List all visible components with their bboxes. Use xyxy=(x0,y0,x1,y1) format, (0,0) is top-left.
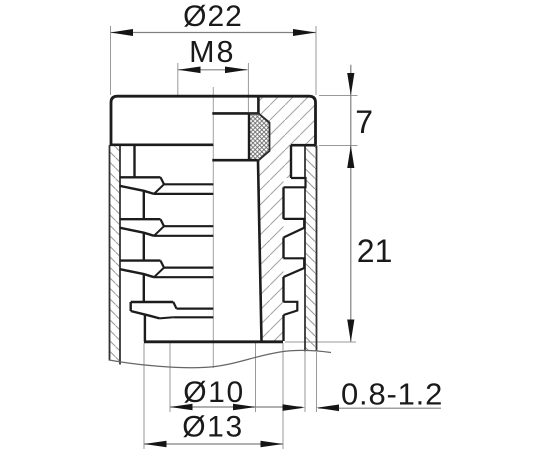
fin 1 left (outside view) xyxy=(120,177,214,194)
dimension Ø22 xyxy=(111,0,317,95)
fin 2 left (outside view) xyxy=(120,219,214,236)
dimension M8 xyxy=(178,35,249,113)
svg-text:21: 21 xyxy=(357,233,393,269)
svg-text:0.8-1.2: 0.8-1.2 xyxy=(341,376,443,411)
bore wall (section) xyxy=(258,161,262,341)
tube break line (wavy) xyxy=(109,350,331,367)
tube wall right (section) xyxy=(305,146,317,352)
thread shoulder line xyxy=(212,112,258,115)
dimension Ø10 xyxy=(170,343,302,412)
dimension 7 xyxy=(319,65,373,342)
counterbore wall xyxy=(257,96,260,113)
dimension 0.8-1.2 wall thickness xyxy=(283,352,444,412)
wall below fin 2 left xyxy=(143,233,145,261)
body bottom edge xyxy=(144,340,283,343)
dimension Ø13 xyxy=(144,343,283,449)
fin 1 right (section) xyxy=(284,178,306,187)
fin 3 right (section) xyxy=(284,258,305,277)
centerline xyxy=(212,87,214,368)
wall below fin 3 left xyxy=(143,274,145,302)
svg-text:7: 7 xyxy=(355,104,373,140)
wall below fin 4 left xyxy=(144,315,146,342)
head outline xyxy=(110,96,317,145)
fin 4 right (section) xyxy=(284,302,298,315)
svg-text:Ø13: Ø13 xyxy=(182,411,244,444)
tube wall left (section) xyxy=(110,145,121,364)
thread zone (cross hatched) xyxy=(249,113,270,160)
svg-text:Ø22: Ø22 xyxy=(183,0,243,33)
svg-text:M8: M8 xyxy=(189,35,235,69)
fin 4 left (outside view) xyxy=(131,302,214,318)
dimension 21 xyxy=(285,233,392,342)
thread zone left edge xyxy=(248,113,250,160)
insert section hatch (right half material) xyxy=(258,97,316,341)
body right wall segments (section) xyxy=(284,145,292,341)
fin 2 right (section) xyxy=(284,219,305,238)
body left neck wall xyxy=(133,145,135,178)
wall below fin 1 left xyxy=(143,191,145,219)
thread bottom line xyxy=(212,159,257,162)
fin 3 left (outside view) xyxy=(120,261,214,278)
